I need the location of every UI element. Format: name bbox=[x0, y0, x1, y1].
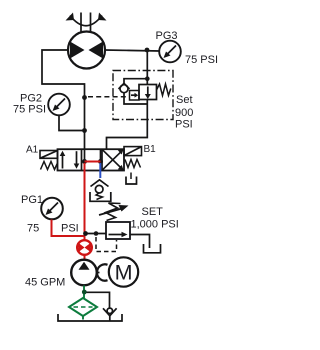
svg-text:PSI: PSI bbox=[61, 223, 79, 235]
svg-text:45 GPM: 45 GPM bbox=[25, 277, 65, 289]
svg-text:SET: SET bbox=[142, 206, 164, 218]
svg-text:Set: Set bbox=[176, 94, 193, 106]
svg-text:PG3: PG3 bbox=[156, 30, 178, 42]
svg-text:1,000 PSI: 1,000 PSI bbox=[131, 219, 179, 231]
svg-text:A1: A1 bbox=[26, 145, 39, 156]
svg-text:M: M bbox=[115, 261, 133, 285]
svg-text:75 PSI: 75 PSI bbox=[185, 54, 218, 66]
svg-text:900: 900 bbox=[175, 107, 193, 119]
svg-text:75: 75 bbox=[27, 223, 39, 235]
svg-text:PG1: PG1 bbox=[21, 194, 43, 206]
svg-text:B1: B1 bbox=[144, 144, 157, 155]
svg-text:75 PSI: 75 PSI bbox=[13, 104, 46, 116]
svg-text:PSI: PSI bbox=[175, 119, 193, 131]
